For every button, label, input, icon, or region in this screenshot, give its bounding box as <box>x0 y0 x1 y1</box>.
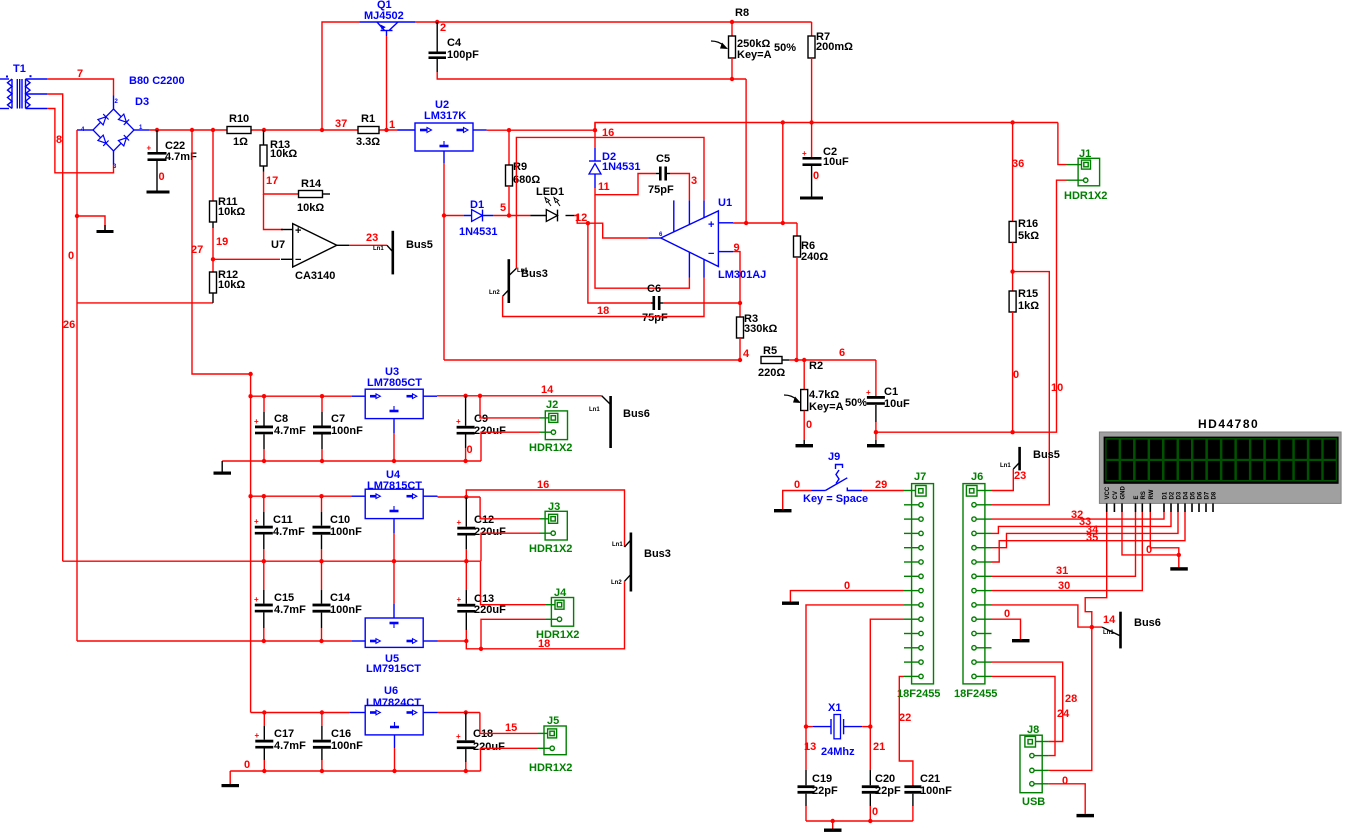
svg-text:VCC: VCC <box>1105 486 1111 499</box>
svg-text:37: 37 <box>335 118 347 130</box>
svg-text:0: 0 <box>1062 775 1068 787</box>
svg-text:27: 27 <box>191 244 203 256</box>
svg-text:C21: C21 <box>920 773 940 785</box>
wire U3 gnd pin <box>393 433 395 461</box>
svg-text:C5: C5 <box>656 153 670 165</box>
node dot C22 <box>155 128 159 132</box>
wire main rail y=122.5 <box>595 123 1058 131</box>
svg-text:220uF: 220uF <box>474 526 506 538</box>
ground J9 <box>774 509 792 512</box>
ground J7 pin8 <box>782 602 799 605</box>
svg-text:10kΩ: 10kΩ <box>297 202 324 214</box>
svg-text:C15: C15 <box>274 592 294 604</box>
svg-text:0: 0 <box>1013 369 1019 381</box>
ground below R2 <box>796 440 814 447</box>
svg-text:RS: RS <box>1141 491 1147 499</box>
svg-text:+: + <box>254 517 259 526</box>
wire J2 pin1 <box>480 396 539 418</box>
wire net 35 J6 pin6 to LCD D4 <box>992 512 1186 562</box>
svg-text:J2: J2 <box>546 399 558 411</box>
svg-text:16: 16 <box>602 127 614 139</box>
wire net 22 J7 pin14 to C21 <box>899 676 913 786</box>
svg-text:D3: D3 <box>1177 491 1183 499</box>
diode D1 <box>444 199 530 238</box>
wire net 12 LED to U1 output <box>574 216 648 239</box>
svg-text:D3: D3 <box>135 96 149 108</box>
svg-text:4.7mF: 4.7mF <box>274 740 306 752</box>
wire net 13 J7 pin9 to X1 left and C19 <box>806 605 904 727</box>
resistor R6 <box>794 223 829 360</box>
svg-text:J8: J8 <box>1027 724 1039 736</box>
wire J4 pin2 to net 18 <box>481 619 546 649</box>
svg-text:−: − <box>708 248 714 260</box>
svg-text:R15: R15 <box>1018 288 1038 300</box>
svg-text:220uF: 220uF <box>474 425 506 437</box>
wire Q1 collector to top rail <box>415 21 812 23</box>
capacitor C1 <box>866 360 910 440</box>
svg-text:10kΩ: 10kΩ <box>270 148 297 160</box>
wire net 4 U2 adj rail <box>444 359 740 361</box>
svg-text:5kΩ: 5kΩ <box>1018 230 1039 242</box>
svg-text:U6: U6 <box>384 685 398 697</box>
wire net 34 J6 pin5 to LCD D3 <box>992 512 1179 548</box>
node dot R13 <box>262 128 266 132</box>
resistor R16 <box>1009 123 1039 272</box>
svg-text:3: 3 <box>691 175 697 187</box>
resistor R1 <box>356 113 380 148</box>
svg-text:+: + <box>802 149 807 158</box>
svg-text:680Ω: 680Ω <box>513 174 540 186</box>
wire J6 pin10 to ground <box>992 619 1021 639</box>
svg-text:75pF: 75pF <box>648 184 674 196</box>
svg-text:18: 18 <box>597 305 609 317</box>
wire LCD RW to ground <box>1150 512 1179 555</box>
wire U2 adj down <box>443 163 445 360</box>
wire net 16 to U1 pin7 and Bus3 <box>516 137 704 268</box>
wire net 0 rail C1 to R15 bottom and J1 pin2 <box>876 180 1067 432</box>
svg-text:C17: C17 <box>274 728 294 740</box>
wire U6 output net 15 <box>438 712 480 714</box>
svg-text:23: 23 <box>366 232 378 244</box>
wire U5 input from net 26 <box>77 640 351 642</box>
capacitor C22 <box>147 130 198 191</box>
wire net 26 bridge pin4 down <box>76 130 78 641</box>
svg-text:+: + <box>456 417 461 426</box>
wire U3 row input <box>251 395 352 397</box>
connector J2 HDR1X2 <box>529 399 572 454</box>
svg-text:+: + <box>866 388 871 397</box>
svg-text:100nF: 100nF <box>331 425 363 437</box>
capacitor C19 <box>798 727 838 821</box>
wire net 27 vertical feed <box>192 130 251 713</box>
wire net 7 T1 top tap to bridge pin 2 <box>47 79 114 96</box>
svg-text:LM7805CT: LM7805CT <box>367 377 422 389</box>
svg-text:HDR1X2: HDR1X2 <box>529 543 572 555</box>
ground J8 <box>1077 814 1095 817</box>
wire net 8 T1 middle tap down left column <box>47 94 63 561</box>
svg-text:22: 22 <box>899 712 911 724</box>
svg-text:5: 5 <box>500 202 506 214</box>
svg-text:220uF: 220uF <box>473 741 505 753</box>
wire J8 pin4 to ground <box>1049 784 1086 814</box>
capacitor C18 <box>456 713 505 772</box>
wire LCD GND to ground <box>1122 512 1179 567</box>
capacitor C12 <box>457 497 507 561</box>
transistor Q1 <box>359 0 415 36</box>
svg-text:C11: C11 <box>273 514 293 526</box>
wire net 29 J9 to J7 pin1 <box>862 490 904 492</box>
svg-text:+: + <box>456 732 461 741</box>
svg-text:220Ω: 220Ω <box>758 367 785 379</box>
wire U3 output net 14 <box>437 395 602 397</box>
svg-text:Ln1: Ln1 <box>373 246 384 252</box>
wire net plus input <box>733 222 797 224</box>
svg-text:Key=A: Key=A <box>737 49 772 61</box>
svg-text:R1: R1 <box>361 113 375 125</box>
svg-text:Key=A: Key=A <box>809 401 844 413</box>
svg-text:2: 2 <box>440 22 446 34</box>
svg-text:RW: RW <box>1149 489 1155 499</box>
svg-text:100nF: 100nF <box>330 526 362 538</box>
svg-text:C10: C10 <box>330 514 350 526</box>
svg-text:+: + <box>254 417 259 426</box>
wire U5 output net 18 <box>438 640 467 642</box>
svg-text:100pF: 100pF <box>447 49 479 61</box>
voltage regulator U3 LM7805CT <box>352 366 437 433</box>
svg-text:HDR1X2: HDR1X2 <box>1064 190 1107 202</box>
svg-text:U1: U1 <box>718 197 732 209</box>
svg-text:1N4531: 1N4531 <box>602 161 641 173</box>
svg-text:USB: USB <box>1022 796 1045 808</box>
svg-text:75pF: 75pF <box>642 312 668 324</box>
svg-text:HD44780: HD44780 <box>1198 417 1259 431</box>
bridge rectifier D3 <box>77 75 185 170</box>
wire ground stub x77 <box>77 216 105 230</box>
svg-text:GND: GND <box>1121 486 1127 500</box>
capacitor C15 <box>254 561 306 641</box>
svg-text:18F2455: 18F2455 <box>954 688 997 700</box>
svg-text:J7: J7 <box>914 471 926 483</box>
svg-text:B80 C2200: B80 C2200 <box>129 75 185 87</box>
svg-text:+: + <box>457 518 462 527</box>
wire crystal ground rail <box>806 820 913 822</box>
svg-text:Bus5: Bus5 <box>406 239 433 251</box>
svg-text:18F2455: 18F2455 <box>897 688 940 700</box>
svg-text:+: + <box>255 731 260 740</box>
svg-text:R9: R9 <box>513 161 527 173</box>
wire Q1 emitter to node 37 <box>322 22 359 130</box>
voltage regulator U5 LM7915CT <box>351 604 437 675</box>
capacitor C14 <box>313 561 363 641</box>
svg-text:C14: C14 <box>330 592 351 604</box>
svg-text:Bus6: Bus6 <box>1134 617 1161 629</box>
wire U2 output to rail <box>487 129 595 131</box>
svg-text:200mΩ: 200mΩ <box>816 41 853 53</box>
svg-text:10: 10 <box>1051 382 1063 394</box>
connector J7 18F2455 <box>897 471 940 700</box>
wire C4 bottom to R8 wiper rail <box>437 72 746 79</box>
resistor R14 <box>297 178 330 214</box>
potentiometer R8 <box>711 7 796 79</box>
svg-text:21: 21 <box>873 741 885 753</box>
svg-text:Bus6: Bus6 <box>623 408 650 420</box>
capacitor C7 <box>313 396 363 461</box>
svg-text:100nF: 100nF <box>330 604 362 616</box>
svg-text:10uF: 10uF <box>884 398 910 410</box>
wire U4 row input <box>251 495 352 497</box>
svg-text:D5: D5 <box>1191 491 1197 499</box>
svg-text:23: 23 <box>1014 470 1026 482</box>
resistor R11 <box>210 130 246 228</box>
svg-text:D2: D2 <box>1170 491 1176 499</box>
wire U6 ground rail <box>230 770 480 772</box>
bus Bus3 right tap <box>611 533 671 592</box>
connector J4 HDR1X2 <box>536 587 579 641</box>
wire net 23 J6 pin1 to Bus5 <box>992 469 1014 491</box>
svg-text:C9: C9 <box>474 413 488 425</box>
capacitor C17 <box>255 713 307 772</box>
svg-text:HDR1X2: HDR1X2 <box>529 762 572 774</box>
svg-text:4.7mF: 4.7mF <box>273 526 305 538</box>
svg-text:Ln2: Ln2 <box>611 580 622 586</box>
svg-text:C8: C8 <box>274 413 288 425</box>
svg-text:Key = Space: Key = Space <box>803 493 868 505</box>
node dot R11 column <box>211 128 215 132</box>
svg-text:+: + <box>708 219 714 231</box>
wire net 28 J6 pin13 to J8 pin1 <box>992 662 1063 741</box>
svg-text:C7: C7 <box>331 413 345 425</box>
svg-text:16: 16 <box>537 479 549 491</box>
svg-text:0: 0 <box>844 580 850 592</box>
connector J3 HDR1X2 <box>529 501 572 555</box>
wire net 3 C5 to U1 pin1 <box>670 174 689 201</box>
svg-text:10kΩ: 10kΩ <box>218 279 245 291</box>
capacitor C16 <box>313 713 363 772</box>
bus Bus6 right tap <box>1102 612 1161 649</box>
wire net 11 D2 to C5 <box>595 174 656 195</box>
ground left column <box>97 225 114 233</box>
bus Bus5 left tap <box>373 231 433 275</box>
svg-text:0: 0 <box>813 170 819 182</box>
svg-text:C12: C12 <box>474 514 494 526</box>
svg-text:MJ4502: MJ4502 <box>364 10 404 22</box>
wire net 31 J6 pin7 to LCD E <box>992 512 1136 576</box>
svg-text:9: 9 <box>734 242 740 254</box>
svg-text:31: 31 <box>1056 565 1068 577</box>
connector J6 18F2455 <box>954 471 997 700</box>
svg-text:36: 36 <box>1012 158 1024 170</box>
voltage regulator U4 LM7815CT <box>351 469 437 533</box>
svg-text:LM7915CT: LM7915CT <box>366 663 421 675</box>
voltage regulator U2 LM317K <box>398 99 487 163</box>
node dot line27 <box>190 128 194 132</box>
svg-text:CA3140: CA3140 <box>295 270 335 282</box>
svg-text:22pF: 22pF <box>875 785 901 797</box>
svg-text:50%: 50% <box>774 42 796 54</box>
wire net 36 rail to J1 pin1 <box>1058 123 1067 165</box>
svg-text:19: 19 <box>216 236 228 248</box>
svg-text:D1: D1 <box>1163 491 1169 499</box>
wire net 33 J6 pin4 to LCD D2 <box>992 512 1172 533</box>
svg-text:+: + <box>254 595 259 604</box>
svg-text:6: 6 <box>839 347 845 359</box>
svg-text:J6: J6 <box>971 471 983 483</box>
wire R12 bottom to x77 <box>77 302 213 304</box>
svg-text:220uF: 220uF <box>474 604 506 616</box>
svg-text:C16: C16 <box>331 728 351 740</box>
capacitor C6 <box>642 283 668 324</box>
ground crystal rail <box>824 821 842 832</box>
svg-text:U7: U7 <box>271 239 285 251</box>
resistor R12 <box>210 259 246 303</box>
svg-text:240Ω: 240Ω <box>801 251 828 263</box>
svg-text:0: 0 <box>467 444 473 456</box>
resistor R5 <box>758 345 876 379</box>
svg-text:7: 7 <box>77 68 83 80</box>
svg-text:HDR1X2: HDR1X2 <box>536 629 579 641</box>
capacitor C5 <box>648 153 674 196</box>
resistor R3 <box>737 303 778 360</box>
ground U6 rail left <box>222 771 240 787</box>
ground below C1 <box>867 440 885 447</box>
svg-text:R10: R10 <box>229 113 249 125</box>
svg-text:0: 0 <box>794 479 800 491</box>
svg-text:17: 17 <box>266 175 278 187</box>
wire rail to plus input <box>782 123 784 224</box>
wire J2 pin2 to ground rail <box>481 432 539 461</box>
svg-text:HDR1X2: HDR1X2 <box>529 442 572 454</box>
svg-text:LM301AJ: LM301AJ <box>718 269 766 281</box>
svg-text:−: − <box>295 254 301 266</box>
svg-text:26: 26 <box>63 319 75 331</box>
svg-text:C1: C1 <box>884 386 898 398</box>
wire net 18 Bus3 Ln2 to U1 pin4 <box>503 278 704 317</box>
LED LED1 <box>530 186 574 221</box>
svg-text:C6: C6 <box>647 283 661 295</box>
svg-text:24: 24 <box>1057 708 1070 720</box>
wire net 9 C6 right to R3 top and U1 minus <box>663 302 740 304</box>
wire Q1 base to node 1 <box>386 36 388 130</box>
svg-text:Ln1: Ln1 <box>1103 630 1114 636</box>
wire J9 left to ground <box>783 491 812 510</box>
svg-text:0: 0 <box>244 759 250 771</box>
capacitor C21 <box>904 773 952 821</box>
svg-text:0: 0 <box>68 250 74 262</box>
ground below C22 <box>147 191 170 194</box>
svg-text:D7: D7 <box>1205 491 1211 499</box>
wire net 14 J6 pin9 to LCD VCC and Bus6 and J8 pin3 <box>992 605 1103 627</box>
capacitor C20 <box>862 727 901 821</box>
svg-text:1N4531: 1N4531 <box>459 226 498 238</box>
svg-text:Ln1: Ln1 <box>1000 463 1011 469</box>
capacitor C9 <box>456 396 506 461</box>
svg-text:100nF: 100nF <box>331 740 363 752</box>
svg-text:Ln2: Ln2 <box>489 290 500 296</box>
svg-text:Bus3: Bus3 <box>521 268 548 280</box>
resistor R10 <box>227 113 251 148</box>
wire J5 pin2 <box>481 748 539 771</box>
svg-text:10uF: 10uF <box>823 156 849 168</box>
svg-text:22pF: 22pF <box>812 785 838 797</box>
ground below C2 <box>800 197 823 200</box>
svg-text:J9: J9 <box>828 451 840 463</box>
resistor R9 <box>506 130 541 215</box>
wire J4 pin1 from mid rail <box>481 561 547 605</box>
switch J9 <box>803 451 868 505</box>
svg-text:Bus3: Bus3 <box>644 548 671 560</box>
svg-text:R5: R5 <box>763 345 777 357</box>
svg-text:C20: C20 <box>875 773 895 785</box>
ground LCD <box>1170 567 1188 570</box>
svg-text:Ln1: Ln1 <box>589 407 600 413</box>
wire net 32 J6 pin3 to LCD D1 <box>992 512 1165 519</box>
wire T1 bottom tap to bridge pin 3 <box>47 109 114 173</box>
wire net 11 down to U1 pin5 <box>595 195 689 289</box>
svg-text:LED1: LED1 <box>536 186 564 198</box>
svg-text:4: 4 <box>743 348 750 360</box>
svg-text:0: 0 <box>872 806 878 818</box>
svg-text:R8: R8 <box>735 7 749 19</box>
svg-text:C19: C19 <box>812 773 832 785</box>
wire mid ground rail net 8 <box>63 560 481 562</box>
transformer T1 <box>0 63 47 109</box>
bus Bus6 left tap <box>589 396 650 448</box>
wire J3 pin2 <box>481 533 539 561</box>
op-amp U1 LM301AJ <box>648 197 766 281</box>
svg-text:R14: R14 <box>301 178 322 190</box>
svg-text:Bus5: Bus5 <box>1033 449 1060 461</box>
connector J8 USB <box>1020 724 1049 808</box>
svg-text:LM317K: LM317K <box>424 110 466 122</box>
potentiometer R2 <box>784 360 867 440</box>
capacitor C10 <box>313 496 363 561</box>
bus Bus5 right tap <box>1000 447 1060 471</box>
svg-text:J5: J5 <box>547 715 559 727</box>
svg-text:Ln1: Ln1 <box>612 542 623 548</box>
wire net 21 J7 pin10 to X1 right and C20 <box>870 619 904 726</box>
connector J1 HDR1X2 <box>1064 148 1107 202</box>
capacitor C8 <box>254 396 306 461</box>
capacitor C11 <box>254 496 305 561</box>
svg-text:12: 12 <box>575 212 587 224</box>
svg-text:+: + <box>147 144 152 153</box>
capacitor C2 <box>802 123 849 197</box>
wire U6 row input <box>251 712 350 714</box>
svg-text:4.7mF: 4.7mF <box>274 425 306 437</box>
ground J6 pin10 <box>1012 639 1030 642</box>
svg-text:50%: 50% <box>845 397 867 409</box>
bus Bus3 left tap <box>489 259 548 303</box>
svg-text:X1: X1 <box>828 702 841 714</box>
op-amp U7 <box>271 224 349 282</box>
svg-text:4.7kΩ: 4.7kΩ <box>809 389 839 401</box>
svg-text:1: 1 <box>389 119 395 131</box>
svg-text:R2: R2 <box>809 360 823 372</box>
resistor R15 <box>1009 272 1039 433</box>
crystal X1 <box>813 702 863 758</box>
LCD HD44780 <box>1099 417 1341 512</box>
wire X1 stubs <box>806 726 813 728</box>
resistor R7 <box>808 22 853 123</box>
svg-text:0: 0 <box>1004 608 1010 620</box>
diode D2 <box>589 123 641 189</box>
svg-text:C4: C4 <box>447 37 462 49</box>
svg-text:28: 28 <box>1065 693 1077 705</box>
wire net 12 down to C6 <box>588 223 651 303</box>
wire U4 output net 16 <box>438 496 481 498</box>
svg-text:R16: R16 <box>1018 218 1038 230</box>
svg-text:0: 0 <box>806 419 812 431</box>
